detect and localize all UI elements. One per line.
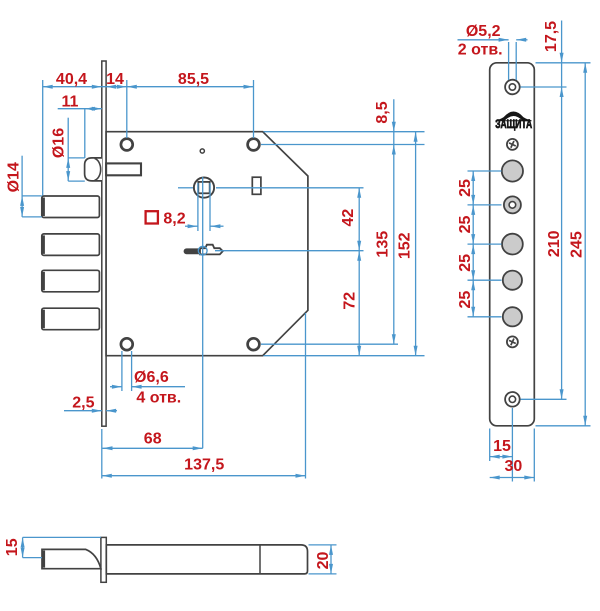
brand logo [496, 112, 532, 122]
extension case top right [264, 131, 425, 133]
dim Ø14 [21, 156, 23, 217]
slot near spindle [252, 177, 261, 194]
dim 15 (side) [22, 537, 24, 557]
extension hole bottom right [261, 343, 398, 345]
svg-text:8,5: 8,5 [374, 101, 391, 123]
svg-text:245: 245 [568, 231, 585, 258]
svg-text:210: 210 [546, 230, 563, 257]
latch tail [106, 163, 141, 175]
dim 2,5 [64, 410, 102, 412]
svg-text:8,2: 8,2 [163, 210, 185, 227]
extension hole TL [126, 80, 128, 138]
svg-text:14: 14 [106, 71, 124, 88]
extension case bottom right [264, 355, 425, 357]
side view body cap line [259, 546, 261, 574]
lock case outline [106, 132, 308, 356]
top screw hole [505, 80, 520, 95]
bolt hole 2 [502, 234, 523, 255]
dim 137,5 [305, 313, 307, 479]
faceplate front view [490, 63, 535, 426]
bolt hole 4 [503, 307, 522, 326]
dim 42 [358, 188, 360, 251]
dim line top (40,4 / 14 / 85,5) [43, 86, 254, 88]
small pin hole [200, 149, 204, 153]
svg-text:Ø5,2: Ø5,2 [466, 23, 501, 40]
svg-text:15: 15 [4, 538, 21, 556]
svg-text:30: 30 [505, 458, 523, 475]
latch bolt head (main view) [85, 158, 102, 181]
deadbolt 1 [42, 196, 100, 218]
deadbolt 3 [42, 270, 100, 292]
extension holes top right [261, 144, 425, 146]
svg-text:42: 42 [340, 209, 357, 227]
dim Ø6,6 4 holes [121, 351, 123, 391]
svg-text:25: 25 [457, 254, 474, 272]
svg-text:2 отв.: 2 отв. [458, 41, 503, 58]
svg-text:20: 20 [315, 552, 332, 570]
svg-text:72: 72 [342, 292, 359, 310]
svg-text:137,5: 137,5 [184, 457, 224, 474]
svg-text:68: 68 [144, 430, 162, 447]
svg-text:25: 25 [457, 179, 474, 197]
svg-text:85,5: 85,5 [178, 71, 209, 88]
dim 15 (faceplate) [489, 429, 491, 462]
dim 8,5 and 135 [393, 99, 395, 344]
extension 40,4 left [42, 80, 44, 196]
bolt hole 1 [502, 160, 523, 181]
svg-text:17,5: 17,5 [543, 21, 560, 52]
hole top-left [121, 139, 133, 151]
svg-text:4 отв.: 4 отв. [136, 389, 181, 406]
svg-text:135: 135 [375, 231, 392, 258]
dim 152 [415, 132, 417, 356]
dim 68 [101, 429, 103, 479]
svg-text:11: 11 [62, 93, 79, 110]
hole top-right [248, 139, 260, 151]
keyhole center circle [198, 246, 207, 255]
svg-text:Ø14: Ø14 [6, 162, 23, 192]
bolt hole 3 [503, 271, 522, 290]
svg-text:15: 15 [493, 438, 511, 455]
dim line 11 [58, 108, 102, 110]
dim 25 chain [472, 171, 474, 317]
screw 1 [507, 139, 518, 150]
dim Ø16 [67, 118, 69, 181]
svg-text:2,5: 2,5 [72, 394, 94, 411]
latch bevel arc [95, 158, 101, 180]
deadbolt 4 [42, 308, 100, 330]
side view body [106, 545, 307, 574]
svg-text:Ø6,6: Ø6,6 [134, 369, 169, 386]
deadbolt 2 [42, 234, 100, 256]
svg-text:25: 25 [457, 216, 474, 234]
side view faceplate bar [101, 537, 106, 582]
spindle square 8.2 [198, 182, 209, 193]
bottom screw hole [505, 392, 520, 407]
spindle centerline left [178, 187, 194, 189]
svg-text:40,4: 40,4 [56, 71, 87, 88]
keyhole slot [187, 248, 201, 254]
dim 245 [584, 63, 586, 426]
extension spindle center [216, 187, 364, 189]
screw 2 [507, 336, 518, 347]
keyhole centerlines [202, 177, 204, 448]
hole bottom-left [121, 338, 133, 350]
extension hole TR [253, 80, 255, 138]
svg-text:152: 152 [396, 232, 413, 259]
dim 20 (side) [330, 545, 332, 574]
dim 72 [358, 251, 360, 356]
dim square 8,2 [146, 211, 158, 223]
extension latch tip [84, 109, 86, 158]
hole bottom-right [248, 338, 260, 350]
dim 30 [533, 429, 535, 482]
extensions right view [536, 62, 591, 64]
svg-text:ЗАЩИТА: ЗАЩИТА [495, 117, 532, 131]
svg-text:Ø16: Ø16 [50, 128, 67, 158]
svg-text:25: 25 [457, 291, 474, 309]
latch hole [504, 196, 521, 213]
spindle hub circle [194, 178, 214, 198]
faceplate edge (main view) [102, 61, 106, 426]
dim 17,5 / 210 [561, 21, 563, 400]
side view latch bolt [42, 549, 101, 568]
